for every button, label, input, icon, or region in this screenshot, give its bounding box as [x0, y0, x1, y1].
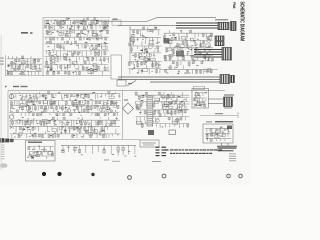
wire: upper mid frame bottom [160, 68, 218, 70]
note marks near circuit B [104, 160, 161, 162]
mounting hole dot 3 [91, 173, 94, 176]
label AC outlets [224, 95, 234, 96]
note text lines [166, 149, 223, 154]
power transformer outline box [140, 140, 159, 147]
label above J601 [215, 19, 228, 20]
relay RY601 [148, 130, 154, 135]
screw dot 5 [162, 174, 166, 178]
connector J604 barrel [220, 75, 230, 84]
voltage selector box [203, 124, 233, 143]
wire vsel to table [221, 143, 223, 146]
voltage selector header label [206, 121, 233, 122]
smudge bottom-left [0, 163, 8, 168]
power amp section lower-left rows 1-2 [9, 91, 121, 116]
connector J602a [215, 36, 224, 41]
wire: B- rail upper [118, 25, 216, 27]
capacitor block C612 (tall empty box) [111, 55, 122, 79]
transistor Q614 heatsink [176, 51, 184, 57]
voltage selector dark part [227, 126, 232, 130]
power supply PCB box [192, 89, 209, 109]
phono equalizer sub-circuit box [26, 141, 56, 161]
wire: B+ rail upper [97, 18, 216, 22]
screw dot 7 [239, 174, 243, 178]
speaker connector J601 barrel [218, 22, 229, 29]
power supply components [193, 92, 207, 107]
left edge hatch strip [1, 145, 5, 160]
speaker tap labels [156, 147, 167, 157]
fuse F601 on rail [112, 20, 121, 25]
switch S601 (speaker selector) [117, 80, 136, 86]
svg-text:SCHEMATIC DIAGRAM: SCHEMATIC DIAGRAM [239, 2, 245, 42]
wire from power box to J605 [208, 98, 224, 100]
power transformer T601 winding [147, 96, 153, 126]
phono equalizer components [27, 146, 54, 159]
wire: left column border [5, 55, 7, 76]
fuse holder F602 [169, 130, 176, 135]
impedance table [217, 146, 237, 161]
rectifier section (lower middle) [135, 92, 190, 128]
scan edge left [0, 35, 2, 170]
phono equalizer title [28, 142, 42, 143]
left edge terminal marks [0, 58, 4, 65]
regulator section right of transformer [161, 95, 190, 114]
voltage selector components [205, 126, 232, 141]
wire bus to connector J604 [118, 77, 220, 82]
power amp section lower-left rows 3-4 [9, 117, 120, 138]
bridge rectifier D601 [123, 100, 134, 115]
input jack IN1 [9, 94, 13, 98]
screw dot 6 [227, 174, 231, 178]
svg-text:PM4: PM4 [232, 2, 236, 9]
connector J602b [215, 42, 224, 46]
connector J604 terminal [231, 76, 235, 83]
wire bus to speaker connector J603 [194, 50, 222, 58]
wire: upper-left block left border [42, 18, 44, 77]
wire: lower block top border [8, 90, 225, 92]
mounting hole dot 1 [42, 172, 46, 176]
screw dot 4 [128, 176, 132, 180]
amplifier section upper-left (Q601-Q604 cluster) [44, 18, 109, 40]
speaker connector J603 [222, 48, 232, 61]
amplifier section upper-left lower half (Q605-Q608 cluster) [45, 41, 110, 75]
AC filter network components [62, 145, 137, 156]
section label TR-101 [5, 86, 28, 88]
driver section (upper right inner) [163, 30, 214, 74]
wire: upper-right block left border [129, 26, 131, 62]
wire: AC line [200, 115, 238, 117]
wire: lower block divider [122, 91, 124, 139]
wire: lower block bottom border [8, 139, 140, 141]
input stage section (left column components) [7, 56, 42, 75]
mounting hole dot 2 [57, 172, 61, 176]
tone control section (upper middle) [128, 27, 162, 74]
wire: upper-left block top border [43, 17, 110, 19]
stamp mark bottom-left [0, 138, 14, 142]
AC outlet connector J605 [224, 97, 233, 107]
page label marks top-left [21, 32, 33, 34]
AC filter network rail [61, 144, 136, 146]
wire bus to speaker connector J601 [176, 23, 218, 28]
wire: lower block left border [7, 91, 9, 140]
wire: upper block bottom border [5, 75, 122, 77]
transistor Q613 heatsink [164, 38, 170, 44]
input jack IN2 [9, 115, 13, 119]
speaker connector J601 terminal box [231, 22, 237, 31]
